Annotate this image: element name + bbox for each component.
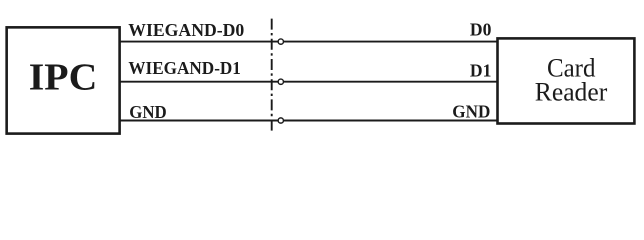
svg-text:WIEGAND-D0: WIEGAND-D0 bbox=[128, 20, 244, 40]
svg-text:Reader: Reader bbox=[535, 78, 608, 107]
terminal circle on D1 wire bbox=[278, 79, 283, 84]
svg-text:IPC: IPC bbox=[29, 58, 98, 99]
terminal circle on GND wire bbox=[278, 118, 283, 123]
wire WIEGAND-D0 / D0 bbox=[120, 41, 498, 43]
cable boundary dash-dot line bbox=[271, 19, 273, 132]
wire WIEGAND-D1 / D1 bbox=[120, 81, 498, 83]
svg-text:WIEGAND-D1: WIEGAND-D1 bbox=[128, 58, 241, 78]
IPC box bbox=[7, 27, 120, 133]
svg-text:GND: GND bbox=[129, 102, 167, 122]
svg-text:GND: GND bbox=[452, 102, 490, 122]
svg-text:D0: D0 bbox=[470, 19, 492, 39]
wire GND bbox=[120, 120, 498, 122]
terminal circle on D0 wire bbox=[278, 39, 283, 44]
Card Reader box bbox=[498, 38, 635, 123]
svg-text:D1: D1 bbox=[470, 60, 492, 80]
